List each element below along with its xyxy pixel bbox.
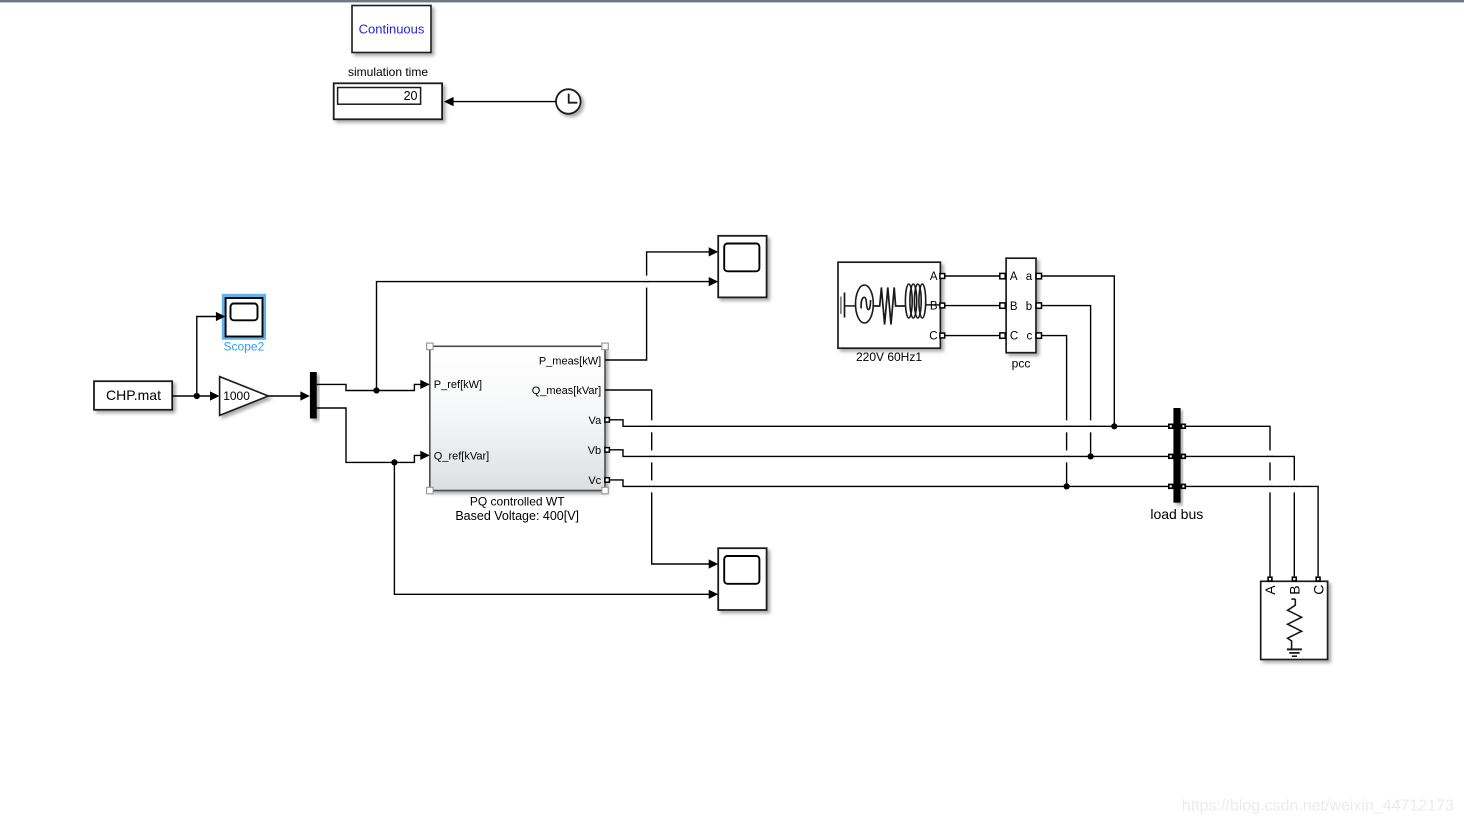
wire pcc b to bus line B xyxy=(1042,306,1091,457)
svg-text:Scope2: Scope2 xyxy=(224,340,265,354)
scope block (top) xyxy=(718,236,766,298)
load bus port squares xyxy=(1168,424,1186,490)
wire Va to load bus and load A xyxy=(609,420,1270,577)
wire demux out1 to P_ref xyxy=(317,380,430,391)
icon: resistor zigzag xyxy=(1288,599,1302,649)
svg-text:Va: Va xyxy=(589,415,603,427)
svg-text:a: a xyxy=(1026,271,1033,283)
subsystem block PQ controlled WT xyxy=(430,346,605,490)
svg-text:A: A xyxy=(1262,585,1278,595)
svg-text:simulation time: simulation time xyxy=(348,65,428,79)
wire pcc c to bus line C xyxy=(1042,336,1067,487)
wire clock to display xyxy=(444,97,556,106)
wire source B to pcc B xyxy=(945,305,1000,307)
svg-text:Continuous: Continuous xyxy=(359,22,425,37)
wire branch to top scope input 2 xyxy=(377,277,719,391)
icon: AC source circle xyxy=(856,285,874,323)
junction node bus line B xyxy=(1088,453,1094,459)
pcc block xyxy=(1006,258,1036,353)
svg-text:B: B xyxy=(1010,301,1018,313)
junction node on Q_ref wire xyxy=(391,459,397,465)
svg-text:Vb: Vb xyxy=(588,445,601,457)
crossing horizontal patches xyxy=(644,282,1297,487)
junction node on P_ref wire xyxy=(373,387,379,393)
icon: resistor zigzag xyxy=(873,288,905,325)
crossing gaps on vertical wires xyxy=(645,276,1296,493)
svg-text:P_ref[kW]: P_ref[kW] xyxy=(434,379,482,391)
wire Vc to load bus and load C xyxy=(609,480,1318,577)
scope block Scope2 xyxy=(226,298,263,337)
svg-text:PQ controlled WT: PQ controlled WT xyxy=(470,495,565,509)
label: PQ controlled WT / Based Voltage: 400[V] xyxy=(455,495,579,523)
wire P_meas to top scope input 1 xyxy=(605,247,718,360)
Scope2 selection highlight xyxy=(222,294,266,340)
svg-text:Based Voltage: 400[V]: Based Voltage: 400[V] xyxy=(455,509,579,523)
svg-text:https://blog.csdn.net/weixin_4: https://blog.csdn.net/weixin_44712173 xyxy=(1182,798,1454,815)
svg-text:C: C xyxy=(1310,585,1326,595)
scope block (bottom) xyxy=(718,548,766,610)
svg-text:20: 20 xyxy=(404,89,418,103)
icon: wire to AC source xyxy=(845,305,856,307)
svg-text:c: c xyxy=(1026,331,1032,343)
svg-text:P_meas[kW]: P_meas[kW] xyxy=(539,356,601,368)
three-phase source block 220V 60Hz1 xyxy=(838,262,940,348)
load block port squares xyxy=(1267,576,1321,581)
icon: ground xyxy=(1287,648,1302,650)
svg-text:A: A xyxy=(930,271,938,283)
svg-text:C: C xyxy=(929,331,937,343)
icon: inductor coils xyxy=(905,284,925,318)
wire CHP.mat to gain xyxy=(172,391,219,400)
wire branch to bottom scope input 2 xyxy=(394,462,718,599)
svg-text:pcc: pcc xyxy=(1012,357,1031,371)
wire pcc a to bus line A xyxy=(1042,276,1115,426)
svg-text:Q_meas[kVar]: Q_meas[kVar] xyxy=(532,385,602,397)
wire Vb to load bus and load B xyxy=(609,450,1294,577)
svg-text:220V 60Hz1: 220V 60Hz1 xyxy=(856,350,922,364)
wire demux out2 to Q_ref xyxy=(317,408,430,462)
svg-text:B: B xyxy=(1287,585,1303,594)
junction node bus line A xyxy=(1111,423,1117,429)
three-phase load block xyxy=(1261,581,1328,659)
demux xyxy=(310,372,317,419)
junction node bus line C xyxy=(1064,483,1070,489)
toolbar divider line xyxy=(0,0,1464,2)
clock block xyxy=(556,89,581,114)
svg-text:b: b xyxy=(1026,301,1032,313)
display block (simulation time) xyxy=(334,83,442,119)
pcc port squares xyxy=(1000,273,1042,338)
wire Q_meas to bottom scope input 1 xyxy=(605,390,718,569)
svg-text:CHP.mat: CHP.mat xyxy=(106,387,161,403)
svg-text:load bus: load bus xyxy=(1150,506,1203,522)
subsystem Va/Vb/Vc port squares xyxy=(605,418,610,483)
source port squares xyxy=(940,274,945,338)
wire source C to pcc C xyxy=(945,335,1000,337)
powergui block "Continuous" xyxy=(352,6,431,53)
selection handles of subsystem xyxy=(427,343,609,494)
wire gain to demux xyxy=(268,391,310,400)
svg-text:Vc: Vc xyxy=(588,475,601,487)
svg-text:1000: 1000 xyxy=(223,389,250,403)
svg-text:C: C xyxy=(1010,331,1018,343)
load bus bar xyxy=(1173,408,1180,503)
gain block 1000 xyxy=(220,377,269,416)
svg-text:A: A xyxy=(1010,271,1018,283)
wire source A to pcc A xyxy=(945,275,1000,277)
svg-text:B: B xyxy=(930,301,938,313)
icon: wire to port B xyxy=(926,301,940,305)
icon: battery/ground bars xyxy=(840,297,842,315)
wire branch to Scope2 xyxy=(197,312,226,396)
from-file block CHP.mat xyxy=(94,381,172,410)
svg-text:Q_ref[kVar]: Q_ref[kVar] xyxy=(434,450,489,462)
junction node on CHP wire xyxy=(194,393,200,399)
